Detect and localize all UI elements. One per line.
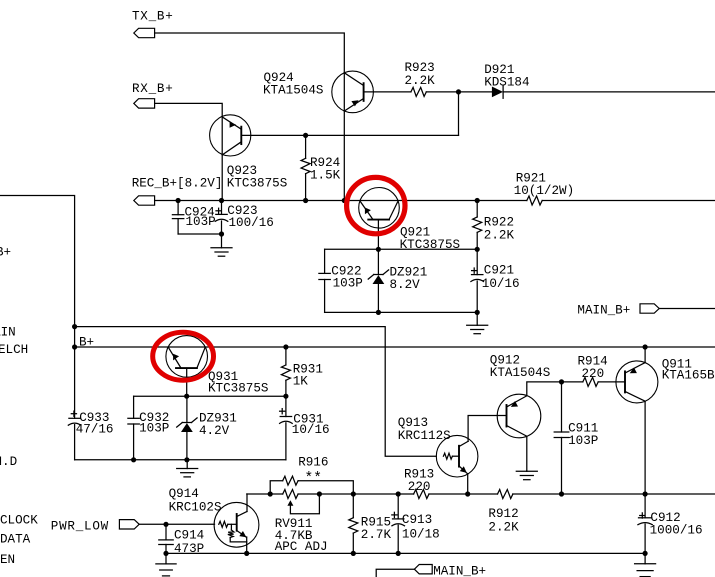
transistor Q931 KTC3875S [166,336,269,396]
capacitor C914 473P [159,524,204,556]
wire APC rail y=494 [247,493,715,495]
wire Q911 collector down [644,401,646,494]
node R922 top junction [475,198,480,203]
capacitor C931 10/16 [280,396,330,460]
label DATA at left edge [0,533,31,547]
node C911 top junction [559,379,564,384]
svg-text:R922: R922 [484,216,514,230]
svg-text:C921: C921 [484,263,514,277]
resistor R924 1.5K [301,135,341,200]
port TX_B+ with label [132,9,174,37]
svg-text:RX_B+: RX_B+ [132,82,174,96]
node Q913 emitter junction [465,491,470,496]
capacitor C932 103P [128,396,169,460]
svg-text:2.2K: 2.2K [405,74,436,88]
svg-text:B+: B+ [79,336,94,350]
wire Q923 bottom to REC_B+ line [221,155,223,201]
wire Q931 base rail y=396 [134,395,286,397]
svg-text:R923: R923 [405,61,435,75]
label partial B+ at left edge [0,245,11,259]
node R915 top junction [351,491,356,496]
svg-text:**: ** [305,471,322,487]
port PWR_LOW with label [51,519,139,533]
svg-text:1K: 1K [293,375,309,389]
capacitor C913 10/18 [392,494,440,553]
node B+ lower junction [72,344,77,349]
ground below C914 [156,553,176,576]
svg-text:10(1/2W): 10(1/2W) [514,184,574,198]
red annotation circle around Q921 [347,177,405,233]
svg-text:DATA: DATA [0,533,31,547]
svg-text:TX_B+: TX_B+ [132,9,174,23]
port MAIN_B+ right with label [577,303,659,317]
wire R923 to D921 [426,91,492,93]
transistor Q912 KTA1504S [490,354,550,438]
wire bottom rail y=312 [325,311,478,313]
label partial N.D at left edge [0,455,17,469]
potentiometer RV911 4.7KB APC ADJ [275,490,328,555]
svg-text:R916: R916 [298,456,328,470]
wire Q921 base stem [377,220,379,250]
node C932 bottom junction [131,457,136,462]
node Q911 emitter junction [643,344,648,349]
svg-text:MAIN: MAIN [0,326,16,340]
svg-text:SQUELCH: SQUELCH [0,343,28,357]
svg-text:473P: 473P [174,542,204,556]
wire Q913 emitter down [467,474,469,494]
node DZ921 bottom junction [376,310,381,315]
transistor Q911 KTA1658 [616,357,715,403]
resistor R913 220 [404,468,434,499]
wire Q911 emitter up to B+ rail [644,347,646,363]
node C914 bottom junction [163,551,168,556]
node C923 junction [219,198,224,203]
transistor Q924 KTA1504S [263,71,373,113]
wire Q912 collector to C911/R914 rail [527,382,583,396]
svg-text:1.5K: 1.5K [310,169,341,183]
ground below C912 [635,553,656,576]
transistor Q921 KTC3875S [359,188,460,253]
resistor R912 2.2K [488,490,519,535]
wire zener rail y=249 [325,248,478,250]
wire ground rail y=553 [166,552,645,554]
svg-text:103P: 103P [139,421,169,435]
svg-text:2.7K: 2.7K [361,528,392,542]
label EN at left edge [0,553,15,567]
red annotation circle around Q931 [153,332,214,380]
svg-text:KDS184: KDS184 [484,75,529,89]
svg-text:REC_B+[8.2V]: REC_B+[8.2V] [132,177,223,191]
svg-text:EN: EN [0,553,15,567]
ground below Q912 [516,471,537,480]
svg-text:KTA1504S: KTA1504S [263,84,323,98]
wire C924 to C923 bottom [178,233,221,235]
wire Q931 base stem [186,368,188,396]
wire MAIN_B+ bottom tap [376,569,414,577]
node C912 bottom junction [643,551,648,556]
port MAIN_B+ bottom with label [414,565,486,577]
node DZ921 top junction [376,247,381,252]
svg-text:103P: 103P [568,434,598,448]
svg-text:2.2K: 2.2K [488,521,519,535]
svg-text:KTA165B: KTA165B [662,369,715,383]
resistor R931 1K [281,347,323,396]
wire Q923 base line [241,134,458,136]
resistor R921 10(1/2W) [514,172,574,206]
svg-text:C913: C913 [402,513,432,527]
node C912 top junction [643,491,648,496]
svg-text:KRC112S: KRC112S [398,429,451,443]
node DZ931 bottom junction [184,457,189,462]
node Q914 emitter rail junction [244,551,249,556]
ground below C923 [211,234,232,256]
port REC_B+[8.2V] with label [132,177,223,206]
wire D921 cathode to right edge [503,91,715,93]
svg-text:10/16: 10/16 [292,423,330,437]
svg-text:KTA1504S: KTA1504S [490,366,550,380]
transistor Q914 KRC102S [169,487,259,547]
wire Q924 base to R923 [364,91,411,93]
node junction R923/D921 [456,89,461,94]
node C921 bottom junction [475,310,480,315]
capacitor C933 47/16 [68,411,113,460]
svg-text:PWR_LOW: PWR_LOW [51,519,109,533]
svg-text:N.D: N.D [0,455,17,469]
svg-text:47/16: 47/16 [76,422,114,436]
svg-text:103P: 103P [333,276,363,290]
node R924 bottom junction [303,198,308,203]
svg-text:MAIN_B+: MAIN_B+ [433,565,486,577]
svg-text:103P: 103P [186,215,216,229]
wire RX_B+ to Q923 top [155,103,223,117]
wire bottom-left rail y=460 [75,459,286,461]
node R924 top junction [303,133,308,138]
node C913 top junction [396,491,401,496]
diode D921 KDS184 [484,63,529,98]
capacitor C912 1000/16 [638,494,703,553]
capacitor C924 103P [172,201,215,235]
resistor R916 bypass branch [270,456,353,495]
port RX_B+ with label [132,82,174,108]
node R931 top junction [283,344,288,349]
resistor R915 2.7K [349,494,392,553]
capacitor C923 100/16 [215,201,274,235]
svg-text:B+: B+ [0,245,11,259]
svg-text:4.2V: 4.2V [199,424,230,438]
svg-text:C914: C914 [174,528,204,542]
svg-text:8.2V: 8.2V [390,278,421,292]
label partial SQUELCH at left edge [0,343,28,357]
wire REC_B+ rail [155,200,715,202]
svg-text:APC ADJ: APC ADJ [275,540,328,554]
svg-text:100/16: 100/16 [229,216,274,230]
zener diode DZ921 8.2V [368,249,427,312]
svg-text:KTC3875S: KTC3875S [208,382,268,396]
node cap ground junction [219,231,224,236]
transistor Q923 KTC3875S [210,115,288,191]
svg-text:10/16: 10/16 [482,277,520,291]
node R922 bottom junction [475,247,480,252]
zener diode DZ931 4.2V [177,396,237,460]
node B+ upper junction [72,324,77,329]
wire Q912 emitter down to ground [526,436,528,471]
node Q924 emitter junction [342,198,347,203]
wire TX_B+ to Q924 collector [155,33,345,73]
node C914 junction [163,522,168,527]
svg-text:1000/16: 1000/16 [650,523,703,537]
node DZ931 top junction [184,394,189,399]
node C924 junction [176,198,181,203]
node C931 top junction [283,394,288,399]
transistor Q913 KRC112S [398,416,478,477]
svg-text:220: 220 [408,480,431,494]
ground below C921 rail [467,312,488,333]
svg-text:KRC102S: KRC102S [169,501,222,515]
wire left stub into B+ vertical [0,196,75,419]
node C913 bottom junction [396,551,401,556]
wire upper rail to Q913 base [75,327,437,457]
resistor R923 2.2K [405,61,436,96]
wire Q913 collector up and to Q912 base [468,416,506,442]
wire Q924 emitter to REC_B+ line [343,111,345,201]
wire Q914 collector up to APC rail [246,494,248,512]
svg-text:MAIN_B+: MAIN_B+ [577,303,630,317]
svg-text:Q914: Q914 [169,487,199,501]
wire junction down to mid line [458,92,460,135]
wire PWR_LOW to Q914 base [139,523,214,525]
node R915 bottom junction [351,551,356,556]
wire Q914 emitter down to ground rail [246,537,248,553]
svg-text:2.2K: 2.2K [484,229,515,243]
node C911 bottom junction [559,491,564,496]
capacitor C921 10/16 [471,249,520,312]
svg-text:220: 220 [582,367,605,381]
wire B+ rail [75,336,715,350]
ground below DZ931 rail [177,460,198,477]
wire MAIN_B+ to right edge [659,308,715,310]
capacitor C911 103P [554,382,598,494]
node RV911 wiper junction [317,491,322,496]
label CLOCK at left edge [0,514,38,528]
node R916 left junction [268,491,273,496]
svg-text:R912: R912 [488,507,518,521]
svg-text:CLOCK: CLOCK [0,514,38,528]
resistor R914 220 [578,355,626,387]
resistor R922 2.2K [473,201,515,250]
label partial MAIN at left edge [0,326,16,340]
capacitor C922 103P [319,249,363,312]
svg-text:10/18: 10/18 [402,528,440,542]
svg-text:KTC3875S: KTC3875S [227,177,287,191]
